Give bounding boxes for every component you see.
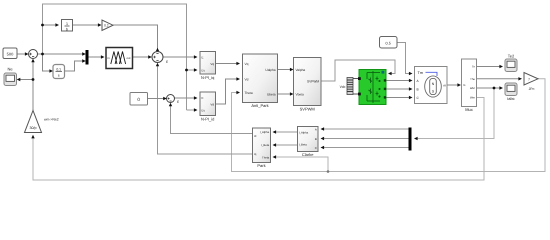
arrow into E1: [194, 55, 198, 58]
wire demux to Clarke C: [323, 147, 409, 149]
svg-text:out: out: [127, 56, 131, 60]
wire Te to scope Te2: [477, 66, 502, 68]
subsystem Park: [253, 128, 271, 168]
sum sumB: [152, 52, 168, 65]
svg-text:Vdc: Vdc: [340, 85, 346, 89]
arrow into E2: [194, 96, 198, 99]
wire wm up through gain to sumA bottom: [19, 61, 34, 111]
svg-text:The: The: [470, 77, 475, 81]
svg-text:N-PI_id: N-PI_id: [201, 117, 214, 122]
svg-text:Theta: Theta: [245, 91, 253, 95]
svg-text:Valpha: Valpha: [296, 68, 306, 72]
wire integrator out to mux: [65, 61, 85, 71]
wire error down to integrator: [43, 54, 52, 71]
transfer 1/b: [62, 20, 73, 32]
arrow into Ev2: [194, 108, 198, 111]
gain 30/p (wm->Ne2): [25, 111, 59, 133]
constant 0: [130, 93, 148, 106]
arrow into demux: [414, 137, 418, 140]
svg-text:7: 7: [528, 77, 530, 81]
wire error-loop top (sumA out up, across, down to Ev inputs): [43, 4, 187, 110]
svg-text:Vq: Vq: [245, 62, 249, 66]
arrow into SVPWM Valpha: [290, 68, 294, 71]
wire Ualpha to SVPWM: [278, 69, 292, 71]
arrow into Park Theta: [273, 155, 277, 158]
arrow into scope Te2: [499, 65, 503, 68]
arrow into motor Tm: [409, 72, 413, 75]
svg-text:JPo: JPo: [529, 87, 535, 91]
svg-text:I_Alpha: I_Alpha: [259, 130, 269, 134]
wire Vd to Anti_Park: [216, 79, 239, 104]
wire Id feedback Park to sumC bottom: [171, 104, 253, 133]
svg-text:30/p: 30/p: [30, 126, 37, 130]
arrow into sumC left: [163, 97, 167, 100]
arrow into gain JPo: [518, 77, 522, 80]
svg-text:Ev: Ev: [202, 69, 206, 73]
dc source Vdc: [340, 78, 353, 95]
arrow into sumC bottom: [169, 103, 172, 107]
sum sumC: [167, 95, 180, 105]
arrow into Clarke A: [321, 127, 325, 130]
wire The to gain JPo: [477, 78, 521, 80]
junction dot Ev1 branch: [185, 69, 188, 72]
arrow into sumA bottom: [31, 59, 34, 63]
scope Te2: [505, 54, 517, 72]
scope Ne: [4, 67, 17, 86]
svg-text:1: 1: [66, 22, 68, 26]
wire demux to Clarke B: [323, 138, 409, 140]
arrow into AntiPark Theta: [236, 91, 240, 94]
arrow into Clarke B: [321, 137, 325, 140]
svg-text:I_Alpha: I_Alpha: [298, 130, 308, 134]
svg-text:0.1: 0.1: [56, 67, 61, 71]
arrow into scope iabc: [499, 86, 503, 89]
svg-text:B: B: [417, 88, 419, 92]
wire sumB out to N-PI_iq E: [163, 56, 196, 58]
subsystem N-PI_iq: [200, 52, 216, 81]
svg-text:Theta: Theta: [262, 155, 270, 159]
wire SVPWM out to bridge g: [321, 60, 395, 81]
arrow into Clarke C: [321, 146, 325, 149]
arrow into motor A: [409, 79, 413, 82]
svg-text:b: b: [66, 27, 68, 31]
wire theta feedback (JPo out right, down, bottom across, up to Anti_Park Theta): [232, 79, 546, 172]
svg-text:E: E: [202, 96, 204, 100]
svg-text:Vq: Vq: [210, 62, 214, 66]
constant 500: [3, 48, 17, 59]
svg-text:Park: Park: [257, 163, 265, 168]
wire fuzzy out to sumB: [133, 56, 151, 58]
junction dot sumA output: [41, 53, 44, 56]
wire bridge phase C to motor: [386, 97, 411, 99]
svg-text:0: 0: [137, 97, 140, 102]
scope iabc: [505, 83, 517, 101]
svg-text:Te: Te: [472, 65, 475, 69]
svg-text:s: s: [58, 73, 60, 77]
fuzzy logic controller: [106, 48, 133, 69]
svg-text:Anti_Park: Anti_Park: [251, 103, 268, 108]
svg-text:iabc: iabc: [470, 86, 476, 90]
gain JPo: [524, 73, 538, 92]
svg-text:Te2: Te2: [508, 54, 515, 59]
wire 1/b to gain 0.2: [73, 24, 100, 26]
arrowheads: [17, 23, 522, 158]
arrow into sumA left: [25, 52, 29, 55]
junction dot Ne scope branch: [32, 78, 35, 81]
arrow into Mux m: [457, 83, 461, 86]
arrow into bridge g: [388, 72, 392, 75]
arrow into AntiPark Vq: [236, 62, 240, 65]
svg-text:0.5: 0.5: [386, 42, 391, 46]
wire mux out to fuzzy: [89, 56, 103, 58]
arrow into 30/p triangle: [31, 135, 34, 139]
arrow into mux bottom: [82, 59, 86, 62]
svg-text:SVPWM: SVPWM: [300, 107, 315, 112]
wire sumC out to N-PI_id E: [175, 97, 196, 99]
wire Clarke I_Beta to Park: [275, 144, 298, 146]
svg-text:Clarke: Clarke: [302, 152, 314, 157]
wire bridge phase A to motor: [386, 80, 411, 82]
motor PMSM: [415, 67, 448, 104]
wire Ev1 from error vertical: [187, 69, 196, 71]
subsystem Clarke: [298, 127, 319, 158]
svg-text:I_Beta: I_Beta: [261, 143, 270, 147]
svg-text:E: E: [202, 56, 204, 60]
svg-text:I_Beta: I_Beta: [298, 143, 307, 147]
wire 0.5 to motor Tm: [397, 43, 411, 74]
svg-text:E: E: [177, 100, 179, 104]
svg-text:A: A: [315, 128, 317, 132]
svg-text:B: B: [315, 137, 317, 141]
svg-text:C: C: [315, 146, 317, 150]
svg-text:N-PI_iq: N-PI_iq: [201, 75, 214, 80]
arrow into Park I_Alpha: [273, 130, 277, 133]
wire const 0 to sumC: [148, 98, 166, 100]
wire gain 0.2 to sumB top: [113, 25, 158, 50]
wire motor m to Mux: [447, 84, 460, 86]
svg-text:500: 500: [7, 51, 14, 56]
wire 500 to sumA: [17, 53, 27, 55]
arrow into AntiPark Vd: [236, 77, 240, 80]
arrow into sumB left: [148, 55, 152, 58]
svg-text:Wm: Wm: [470, 96, 476, 100]
arrow into fuzzy: [101, 55, 105, 58]
wire demux to Clarke A: [323, 128, 409, 130]
wire Clarke I_Alpha to Park: [275, 131, 298, 133]
svg-text:Vd: Vd: [210, 102, 214, 106]
svg-text:SVPWM: SVPWM: [307, 79, 319, 83]
svg-text:iabc: iabc: [507, 96, 514, 101]
sum sumA: [29, 50, 38, 59]
subsystem N-PI_id: [200, 92, 216, 122]
wire error branch to 1/b block: [43, 24, 58, 26]
arrow into SVPWM Vbeta: [290, 92, 294, 95]
gain 0.2: [102, 20, 113, 31]
arrow into motor C: [409, 96, 413, 99]
arrow into motor B: [409, 87, 413, 90]
svg-text:wm->Ne2: wm->Ne2: [44, 118, 59, 122]
arrow into mux top: [82, 52, 86, 55]
junction dot error to 1/b: [41, 24, 44, 27]
arrow into Ne scope: [17, 78, 21, 81]
arrow into Ev1: [194, 68, 198, 71]
wire Vdc to bridge: [353, 79, 360, 95]
wire Vq to Anti_Park: [216, 63, 239, 65]
wire Ubeta to SVPWM: [278, 93, 292, 95]
svg-text:E: E: [166, 60, 168, 64]
arrow into Park I_Beta: [273, 143, 277, 146]
junction dot theta branch: [327, 170, 330, 173]
wire sumA out to mux: [38, 53, 85, 55]
svg-text:Ev: Ev: [202, 109, 206, 113]
svg-text:Vbeta: Vbeta: [296, 92, 305, 96]
wire iabc to scope: [477, 87, 502, 89]
demux bar: [409, 128, 412, 151]
wire Iq feedback Park to sumB bottom: [158, 65, 253, 155]
junction dot iabc branch: [493, 87, 496, 90]
svg-text:Mux: Mux: [465, 107, 473, 112]
arrow into sumB bottom: [156, 63, 159, 67]
arrow into integrator: [49, 69, 53, 72]
inverter bridge (green): [358, 70, 386, 105]
wire Ev2 from error vertical: [187, 109, 196, 111]
constant 0.5: [380, 37, 398, 49]
svg-text:Ne: Ne: [7, 67, 13, 72]
wire wm feedback (Mux Wm right, down, bottom across, up to gain 30/p): [33, 98, 484, 181]
wire bridge phase B to motor: [386, 88, 411, 90]
bus selector Mux: [462, 59, 477, 112]
svg-text:0.2: 0.2: [104, 24, 109, 28]
arrow into 1/b: [55, 23, 59, 26]
svg-text:m: m: [443, 84, 446, 88]
subsystem Anti_Park: [243, 54, 278, 108]
integrator 0.1/s: [53, 65, 65, 79]
mux bar (error + integral): [86, 50, 89, 65]
svg-text:Ualpha: Ualpha: [265, 68, 275, 72]
wire iabc feedback down to demux: [416, 88, 494, 139]
svg-text:Ubeta: Ubeta: [267, 92, 276, 96]
wire theta branch to Park: [274, 157, 328, 172]
svg-text:Vd: Vd: [245, 77, 249, 81]
subsystem SVPWM: [294, 58, 322, 112]
arrow into gain 0.2: [98, 23, 102, 26]
svg-text:Tm: Tm: [418, 71, 423, 75]
arrow into sumB top: [156, 48, 159, 52]
